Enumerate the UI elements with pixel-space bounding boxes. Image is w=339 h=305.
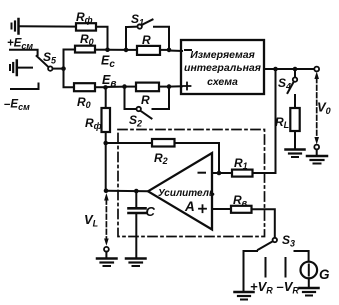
wire Eb to S2/R block	[106, 86, 125, 88]
wire RL to ground	[294, 131, 296, 149]
junction node (right of R row2)	[167, 84, 172, 89]
pin label plus (IC)	[184, 83, 191, 90]
switch S2 branch (bypass under R)	[125, 87, 170, 119]
wire R0 to node Eb	[95, 86, 106, 88]
wire amp minus input	[212, 172, 232, 174]
switch S5 blade and pole	[37, 56, 53, 71]
svg-text:интегральная: интегральная	[184, 62, 261, 74]
ground (S3 contact 1)	[235, 292, 254, 300]
switch S4 (pole, blade, contact)	[288, 69, 298, 108]
svg-text:Усилитель: Усилитель	[158, 188, 215, 199]
wire Ec to S1/R block	[108, 49, 127, 51]
svg-text:G: G	[319, 267, 330, 282]
svg-text:R: R	[141, 93, 150, 107]
junction node (output / S4)	[293, 67, 298, 72]
resistor R0 (lower)	[74, 83, 95, 91]
svg-text:R: R	[142, 33, 151, 47]
wire to IC minus input	[169, 50, 182, 53]
wire junction up to R0 (upper)	[64, 50, 76, 69]
ground (under VL terminal)	[97, 259, 117, 267]
switch S5 upper throw contact (+Ecm)	[10, 50, 38, 55]
VL measuring arrow (dashed)	[104, 193, 109, 258]
ground (under V0 terminal)	[307, 156, 327, 164]
wire R0 to node Ec	[95, 49, 108, 51]
switch S3 pole and blade	[258, 238, 277, 250]
node (Rf / R2 feedback)	[103, 141, 108, 146]
ground (under capacitor)	[126, 259, 146, 267]
svg-text:A: A	[184, 199, 195, 214]
ground (under G)	[300, 288, 319, 296]
V0 measuring arrow (dashed)	[314, 72, 319, 156]
switch S5 lower throw contact (-Ecm)	[11, 84, 39, 90]
svg-text:Измеряемая: Измеряемая	[190, 49, 255, 61]
op-amp U1 triangle (Usilitel A)	[148, 153, 215, 230]
resistor R0 (upper)	[75, 46, 95, 53]
resistor Rf (vertical)	[102, 108, 111, 132]
feedback wire down to output	[105, 143, 107, 191]
wire S5 pole to junction	[53, 68, 64, 70]
dashed amplifier module boundary	[118, 130, 265, 237]
wire row2 junction to R0 (lower)	[64, 69, 75, 88]
resistor RB	[231, 206, 252, 213]
resistor RL (vertical)	[290, 108, 299, 131]
wire stubs R (row2)	[125, 86, 170, 88]
S3 contact 1 (grounded)	[244, 251, 258, 291]
wire stubs R (row1)	[126, 49, 169, 51]
node (R2 return / minus input)	[217, 171, 222, 176]
resistor R (row1)	[137, 46, 160, 55]
resistor Rf (top horizontal)	[76, 23, 96, 30]
node Eb	[103, 85, 108, 90]
wire Eb down to Rf (vertical)	[105, 87, 107, 108]
svg-text:схема: схема	[207, 76, 238, 88]
junction node (left of R row1)	[124, 48, 129, 53]
generator G (source circle)	[301, 262, 318, 279]
wire Rf to feedback node	[105, 132, 107, 143]
junction node (right of R row1)	[167, 48, 172, 53]
terminal V0 (open circle)	[314, 67, 319, 72]
junction node (left of R row2)	[122, 84, 127, 89]
wire ground to Rf	[19, 25, 76, 27]
wire amp plus input	[212, 208, 231, 210]
resistor R1	[232, 170, 253, 177]
wire IC output	[264, 68, 315, 70]
wire G to ground	[308, 278, 310, 287]
resistor R (row2)	[136, 83, 159, 92]
junction node (S5 output)	[61, 66, 66, 71]
junction node (output / R1)	[273, 67, 278, 72]
resistor R2	[152, 139, 175, 147]
switch S1 branch (bypass over R)	[126, 20, 169, 50]
wire R1 to output rail	[253, 69, 276, 173]
node (capacitor tap)	[134, 189, 139, 194]
wire node to R2	[106, 142, 152, 144]
ground (under RL)	[286, 150, 305, 158]
ground (top-left, +Ecm rail)	[12, 19, 19, 34]
wire to IC plus input	[169, 85, 182, 87]
node Ec	[105, 47, 110, 52]
wire RB to S3 pole	[252, 209, 275, 238]
wire Rf to node Ec	[96, 27, 108, 50]
ground (middle-left, S5 center throw)	[10, 61, 32, 76]
svg-text:C: C	[146, 204, 156, 219]
IC box (Izmeryaemaya integralnaya skhema)	[181, 40, 264, 94]
S3 contact -VR (terminal stub)	[285, 258, 287, 277]
S3 contact 4 wire to generator	[295, 251, 309, 262]
pin label minus (IC)	[185, 49, 191, 51]
capacitor C	[129, 191, 146, 258]
wire output line	[106, 190, 148, 193]
node (amp output / VL)	[104, 188, 109, 193]
S3 contact +VR (terminal stub)	[265, 258, 267, 277]
wire R2 to amp minus input	[175, 143, 220, 173]
